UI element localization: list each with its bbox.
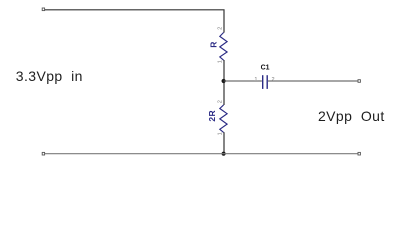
resistor 2R — [220, 105, 227, 132]
svg-text:2: 2 — [272, 77, 275, 83]
svg-text:1: 1 — [254, 77, 257, 83]
terminal bottom-left — [42, 152, 44, 155]
wire to capacitor — [224, 80, 262, 82]
wire middle vertical — [223, 60, 225, 105]
node junction dot bottom — [222, 152, 226, 156]
node junction dot middle — [222, 79, 226, 83]
terminal right output — [358, 80, 360, 83]
wire capacitor to output terminal — [268, 80, 358, 82]
svg-text:2: 2 — [218, 27, 224, 30]
terminal top-left — [42, 8, 44, 11]
wire top horizontal — [45, 10, 224, 33]
svg-text:C1: C1 — [261, 65, 270, 72]
svg-text:R: R — [209, 42, 219, 48]
capacitor C1 — [263, 75, 268, 89]
svg-text:2Vpp Out: 2Vpp Out — [318, 108, 385, 124]
svg-text:2R: 2R — [207, 110, 217, 122]
svg-text:1: 1 — [217, 132, 223, 135]
svg-text:2: 2 — [218, 100, 224, 103]
terminal bottom-right — [358, 152, 360, 155]
wire bottom horizontal — [45, 153, 358, 155]
wire bottom vertical — [223, 132, 225, 154]
resistor R — [220, 33, 227, 61]
svg-text:3.3Vpp in: 3.3Vpp in — [16, 68, 83, 84]
svg-text:1: 1 — [217, 60, 223, 63]
